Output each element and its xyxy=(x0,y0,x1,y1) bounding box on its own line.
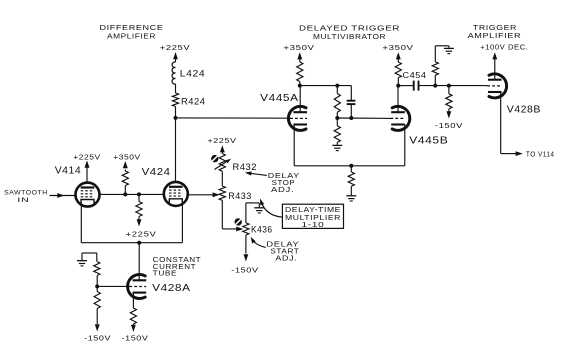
wire: V445A cathode down xyxy=(293,124,295,165)
svg-text:+100V DEC.: +100V DEC. xyxy=(480,45,528,52)
resistor to -150V xyxy=(448,86,450,94)
node: grid rail left xyxy=(335,116,339,120)
wire: V428B cathode down xyxy=(500,92,502,154)
resistor: divider upper xyxy=(94,262,100,276)
wire: to C454 xyxy=(398,85,413,87)
wire: V424 plate lead xyxy=(175,118,177,181)
wire with up arrow to +225V xyxy=(175,54,177,62)
svg-text:+350V: +350V xyxy=(283,43,314,52)
variable arrow of R432 xyxy=(214,161,227,170)
wire L424 to R424 xyxy=(175,84,177,93)
wire with down arrow to -150V (right) xyxy=(132,324,134,325)
wire: C454 to V428B grid xyxy=(419,85,488,87)
wire with up arrow to +100V xyxy=(494,54,496,80)
ground (cathode resistor) xyxy=(350,186,352,195)
wire R424 to node xyxy=(175,107,177,118)
svg-text:-150V: -150V xyxy=(231,265,258,274)
potentiometer R433 xyxy=(219,186,225,200)
wire with arrow: V424 plate to R433 wiper xyxy=(189,194,217,196)
resistor: V428A cathode xyxy=(130,308,136,324)
wire: R433 to K436 wiper xyxy=(221,200,223,229)
svg-text:SAWTOOTH: SAWTOOTH xyxy=(4,190,48,197)
resistor: V445B plate load xyxy=(395,62,401,78)
svg-text:+225V: +225V xyxy=(73,153,101,162)
node: cathode resistor junction xyxy=(349,164,353,168)
svg-text:R433: R433 xyxy=(228,191,252,202)
resistor: V445B grid leak xyxy=(336,118,338,126)
wire with up arrow to +225V xyxy=(221,147,223,154)
ground (grid leak) xyxy=(336,142,338,145)
wire with down arrow to -150V (left) xyxy=(96,309,98,325)
wire: junction to V445A grid xyxy=(176,117,291,119)
wire R to grid rail xyxy=(336,112,338,118)
wire with up arrow, V414 plate to +225V xyxy=(86,162,88,182)
wire and ground bracket (grid leak) xyxy=(434,46,436,62)
svg-text:+225V: +225V xyxy=(160,43,191,52)
svg-text:-150V: -150V xyxy=(435,121,463,130)
wire with down arrow: K436 to -150V xyxy=(245,235,247,254)
wire to plate rail xyxy=(299,82,301,86)
node: grid rail right xyxy=(349,116,353,120)
svg-text:IN: IN xyxy=(17,197,29,204)
svg-text:-150V: -150V xyxy=(122,333,149,342)
wire: V414 cathode down xyxy=(80,203,82,243)
svg-text:R432: R432 xyxy=(233,162,258,173)
potentiometer K436 xyxy=(243,223,249,235)
node: +225V resistor junction xyxy=(137,192,141,196)
wire: V445A plate lead xyxy=(299,86,301,113)
svg-text:V445B: V445B xyxy=(409,135,448,147)
svg-text:L424: L424 xyxy=(180,69,206,79)
wire with down arrow to -150V xyxy=(448,109,450,112)
wire to plate junction xyxy=(397,78,399,86)
svg-text:K436: K436 xyxy=(251,225,273,235)
node: V445B plate junction xyxy=(396,84,400,88)
wire: grid rail to V445B xyxy=(337,117,390,119)
node: -150V resistor junction xyxy=(447,84,451,88)
ground (top left of V428A) with bracket xyxy=(96,253,98,262)
screwdriver adjust K436 xyxy=(235,218,242,225)
wire: V445B plate lead xyxy=(397,86,399,113)
svg-text:V424: V424 xyxy=(142,166,171,178)
wire: V414 to V424 (screen bus) xyxy=(101,193,163,195)
wire with arrow: sawtooth input xyxy=(50,195,75,197)
svg-text:MULTIVIBRATOR: MULTIVIBRATOR xyxy=(313,32,386,41)
wire with up arrow to +350V xyxy=(397,54,399,62)
wire: plate rail A xyxy=(300,85,352,87)
wire: V424 cathode down xyxy=(181,203,183,243)
svg-text:C454: C454 xyxy=(403,71,427,80)
wire: cathode bus bottom xyxy=(81,242,182,244)
node: V445A plate junction xyxy=(298,84,302,88)
node: grid leak junction xyxy=(433,84,437,88)
resistor: V428B grid leak xyxy=(434,75,436,85)
node: cathode bus / V428A plate xyxy=(137,241,141,245)
svg-text:DELAY: DELAY xyxy=(266,241,299,248)
capacitor C454 xyxy=(413,81,415,91)
svg-text:DELAY: DELAY xyxy=(268,173,300,180)
svg-text:V428B: V428B xyxy=(507,104,541,116)
capacitor: coupling xyxy=(350,86,352,101)
svg-text:R424: R424 xyxy=(181,97,206,107)
svg-text:AMPLIFIER: AMPLIFIER xyxy=(107,31,156,40)
tube V428B (half, opening left) xyxy=(489,74,507,98)
svg-text:1-10: 1-10 xyxy=(302,220,325,229)
callout arrow to K436 bottom xyxy=(252,240,266,248)
svg-text:TUBE: TUBE xyxy=(153,271,178,278)
svg-text:AMPLIFIER: AMPLIFIER xyxy=(468,31,522,40)
wire with up arrow to +350V xyxy=(299,54,301,62)
node: junction plate V424 / R424 / grid wire xyxy=(174,116,178,120)
node: +350V resistor junction xyxy=(123,192,127,196)
ground (V428B grid leak) xyxy=(444,47,454,49)
potentiometer R432 xyxy=(219,154,225,172)
svg-text:V414: V414 xyxy=(55,165,81,177)
svg-text:ADJ.: ADJ. xyxy=(275,256,297,263)
svg-text:+225V: +225V xyxy=(208,136,237,145)
resistor: cathode xyxy=(350,166,352,172)
wire: K436 top to ground bracket xyxy=(245,203,247,223)
svg-text:+350V: +350V xyxy=(113,153,141,162)
inductor L424 xyxy=(172,62,175,84)
callout arrow from box to K436 ground wire xyxy=(262,203,283,218)
wire divider xyxy=(96,276,98,292)
resistor: divider lower xyxy=(94,292,100,309)
resistor R424 xyxy=(172,93,178,107)
svg-text:+225V: +225V xyxy=(126,229,157,238)
box DELAY-TIME MULTIPLIER 1-10 xyxy=(282,204,343,228)
resistor: coupling (grid drive) xyxy=(336,86,338,94)
ground (K436) xyxy=(254,207,264,209)
wire: V445B cathode down xyxy=(404,125,406,166)
node: coupling R junction xyxy=(335,84,339,88)
svg-text:ADJ.: ADJ. xyxy=(271,187,294,194)
wire: V428A plate lead xyxy=(138,243,140,281)
resistor to +225V (down) xyxy=(138,194,140,201)
wire with arrow: to V114 xyxy=(501,153,517,155)
wire R432 to R433 xyxy=(221,171,223,186)
wire with down arrow to +225V xyxy=(138,217,140,220)
wire: cathode rail xyxy=(294,165,405,167)
wire resistor to grid wire xyxy=(124,186,126,195)
svg-text:STOP: STOP xyxy=(272,180,296,187)
svg-text:START: START xyxy=(270,248,299,255)
tube V428A (half, opening right) xyxy=(128,275,146,299)
svg-text:+350V: +350V xyxy=(382,43,413,52)
svg-text:V445A: V445A xyxy=(260,92,299,104)
svg-text:-150V: -150V xyxy=(84,333,111,342)
svg-text:V428A: V428A xyxy=(152,282,191,294)
wire: V428A cathode down xyxy=(132,293,134,309)
wire with up arrow to +350V xyxy=(124,170,126,172)
resistor: V445A plate load xyxy=(297,62,303,82)
callout arrow to R432 xyxy=(250,173,267,175)
tube V445B (half, opening left) xyxy=(392,106,410,130)
tube V445A (half, opening right) xyxy=(288,106,306,130)
wire: V428A grid lead xyxy=(97,285,130,287)
svg-text:TO V114: TO V114 xyxy=(526,151,555,158)
screwdriver adjust R432 xyxy=(211,155,218,162)
resistor: screen dropping from +350V xyxy=(122,171,128,186)
tube V424 (pentode) xyxy=(164,182,188,206)
tube V414 (pentode) xyxy=(76,183,100,207)
node: grid divider junction xyxy=(95,284,99,288)
